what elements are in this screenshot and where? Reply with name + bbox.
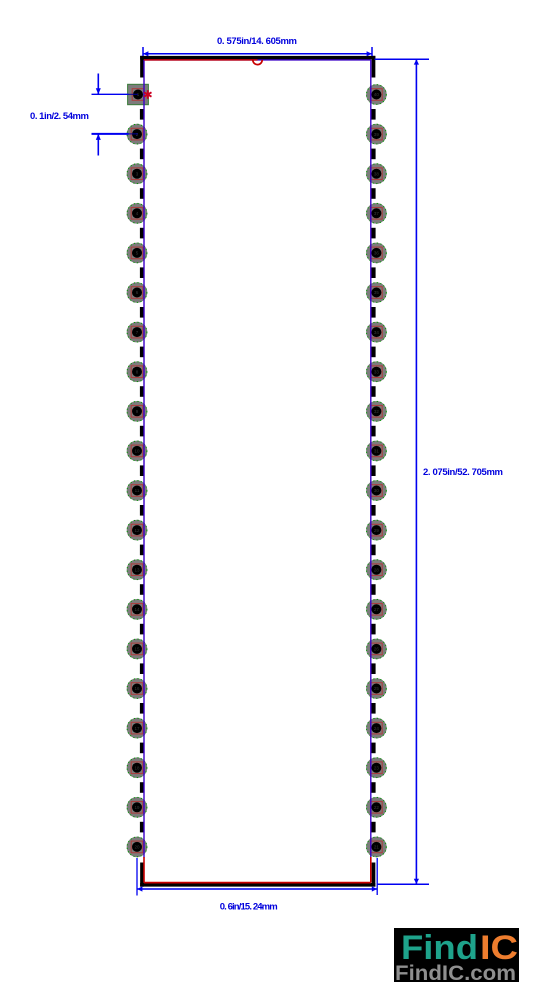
svg-text:21: 21 bbox=[374, 845, 380, 850]
svg-text:19: 19 bbox=[134, 805, 140, 810]
svg-text:13: 13 bbox=[134, 567, 140, 572]
svg-text:0. 1in/2. 54mm: 0. 1in/2. 54mm bbox=[30, 111, 89, 122]
svg-text:34: 34 bbox=[374, 330, 380, 335]
svg-text:16: 16 bbox=[134, 686, 140, 691]
svg-text:38: 38 bbox=[374, 171, 380, 176]
svg-text:31: 31 bbox=[374, 449, 380, 454]
svg-text:33: 33 bbox=[374, 369, 380, 374]
svg-text:37: 37 bbox=[374, 211, 380, 216]
svg-text:15: 15 bbox=[134, 647, 140, 652]
svg-text:23: 23 bbox=[374, 765, 380, 770]
svg-text:0. 575in/14. 605mm: 0. 575in/14. 605mm bbox=[217, 36, 297, 47]
svg-text:29: 29 bbox=[374, 528, 380, 533]
svg-text:10: 10 bbox=[134, 449, 140, 454]
svg-text:25: 25 bbox=[374, 686, 380, 691]
svg-text:26: 26 bbox=[374, 647, 380, 652]
svg-text:0. 6in/15. 24mm: 0. 6in/15. 24mm bbox=[220, 902, 278, 913]
svg-text:30: 30 bbox=[374, 488, 380, 493]
svg-text:27: 27 bbox=[374, 607, 380, 612]
svg-text:22: 22 bbox=[374, 805, 380, 810]
svg-text:FindIC.com: FindIC.com bbox=[395, 961, 516, 985]
svg-text:39: 39 bbox=[374, 132, 380, 137]
svg-text:2. 075in/52. 705mm: 2. 075in/52. 705mm bbox=[423, 467, 503, 478]
svg-text:17: 17 bbox=[134, 726, 140, 731]
svg-text:35: 35 bbox=[374, 290, 380, 295]
svg-text:24: 24 bbox=[374, 726, 380, 731]
svg-text:18: 18 bbox=[134, 765, 140, 770]
svg-text:36: 36 bbox=[374, 251, 380, 256]
svg-text:20: 20 bbox=[134, 845, 140, 850]
svg-text:11: 11 bbox=[135, 488, 140, 493]
svg-text:12: 12 bbox=[134, 528, 140, 533]
svg-text:32: 32 bbox=[374, 409, 380, 414]
svg-text:40: 40 bbox=[374, 92, 380, 97]
svg-text:28: 28 bbox=[374, 567, 380, 572]
svg-text:14: 14 bbox=[134, 607, 140, 612]
